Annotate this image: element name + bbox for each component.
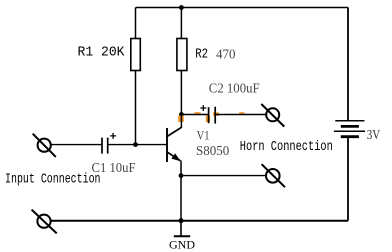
- battery BT1 plate short 2: [341, 135, 359, 138]
- ground bar: [174, 235, 190, 237]
- svg-text:Input Connection: Input Connection: [5, 172, 101, 188]
- orange mark below collector node: [178, 116, 184, 123]
- orange dash 1: [194, 112, 200, 115]
- capacitor C1 plus sign: [110, 133, 116, 139]
- capacitor C2 right plate: [214, 107, 216, 124]
- transistor V1 emitter arrowhead: [171, 153, 180, 161]
- terminal input slash: [33, 134, 56, 157]
- wire R2 bottom lead to collector node: [180, 71, 182, 115]
- battery BT1 plate long 1: [335, 120, 364, 122]
- svg-text:C2 100uF: C2 100uF: [209, 81, 260, 96]
- resistor R1: [131, 39, 141, 71]
- wire emitter vertical to emitter node: [180, 161, 182, 176]
- terminal horn top circle: [266, 108, 279, 121]
- capacitor C2 left plate: [208, 107, 210, 123]
- svg-text:S8050: S8050: [196, 143, 229, 158]
- orange mark under C2 left plate: [206, 116, 210, 123]
- capacitor C1 left plate: [101, 138, 103, 154]
- wire battery bottom lead: [347, 138, 349, 221]
- wire R1 bottom lead to base node: [135, 71, 137, 145]
- wire C1 to transistor base: [108, 144, 167, 146]
- wire bottom rail: [51, 220, 348, 222]
- node collector junction: [179, 112, 184, 117]
- node ground junction: [179, 218, 184, 223]
- wire ground stub: [180, 221, 182, 237]
- node emitter junction: [179, 173, 184, 178]
- wire collector node to C2: [181, 114, 208, 116]
- capacitor C2 plus sign: [200, 105, 206, 111]
- svg-text:Horn Connection: Horn Connection: [240, 139, 333, 155]
- transistor V1 base bar: [166, 128, 168, 162]
- svg-text:C1 10uF: C1 10uF: [92, 160, 136, 175]
- svg-text:R2: R2: [195, 47, 208, 63]
- svg-text:GND: GND: [169, 240, 195, 252]
- wire emitter node to bottom rail: [180, 176, 182, 221]
- wire input terminal to C1: [51, 144, 102, 146]
- capacitor C1 right plate: [107, 138, 109, 154]
- terminal bottom-left slash: [32, 210, 57, 234]
- svg-text:R1 20K: R1 20K: [78, 45, 126, 61]
- orange dash 3: [239, 112, 244, 115]
- wire R2 top lead: [180, 8, 182, 39]
- terminal bottom-left circle: [37, 215, 50, 228]
- battery BT1 plate short 1: [341, 125, 359, 128]
- battery BT1 plate long 2: [334, 130, 365, 132]
- orange dash 2: [213, 112, 219, 115]
- svg-text:V1: V1: [197, 127, 210, 142]
- terminal horn top slash: [261, 104, 284, 127]
- wire collector vertical: [180, 115, 182, 129]
- transistor V1 emitter stroke: [167, 152, 180, 161]
- svg-text:470: 470: [216, 47, 236, 62]
- resistor R2: [177, 39, 187, 71]
- node base junction: [133, 142, 138, 147]
- wire top rail: [136, 7, 349, 9]
- svg-text:3V: 3V: [367, 128, 381, 143]
- wire emitter node to horn terminal bottom: [181, 175, 266, 177]
- terminal input circle: [38, 139, 51, 152]
- terminal horn bottom circle: [266, 169, 280, 183]
- node junction top rail / R2: [179, 5, 184, 10]
- wire battery top lead: [347, 8, 349, 121]
- wire R1 top lead: [135, 8, 137, 39]
- terminal horn bottom slash: [262, 164, 285, 187]
- transistor V1 collector stroke: [167, 128, 181, 137]
- wire C2 to horn terminal top: [215, 114, 266, 116]
